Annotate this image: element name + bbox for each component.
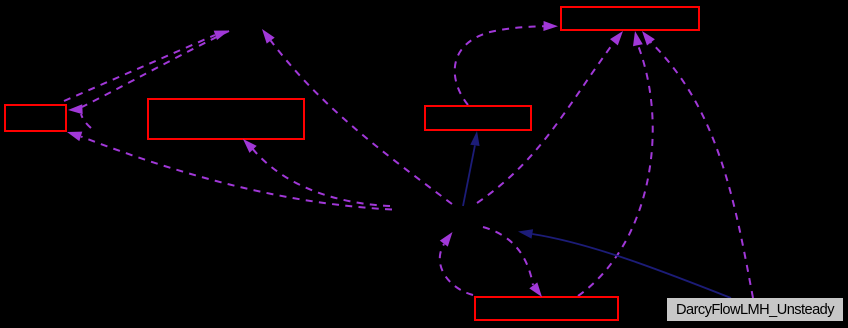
svg-text:DarcyFlowLMH_Unsteady: DarcyFlowLMH_Unsteady [676, 302, 835, 318]
